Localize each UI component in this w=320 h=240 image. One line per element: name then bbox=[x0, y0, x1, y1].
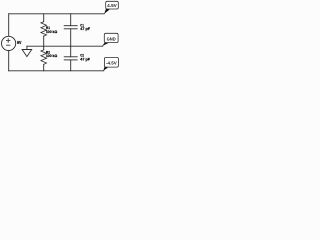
svg-text:GND: GND bbox=[107, 36, 116, 41]
svg-text:9V: 9V bbox=[17, 40, 22, 45]
svg-text:47 pF: 47 pF bbox=[80, 56, 90, 61]
svg-text:100 kΩ: 100 kΩ bbox=[46, 53, 58, 58]
svg-text:-4.5V: -4.5V bbox=[106, 60, 117, 65]
svg-text:4.5V: 4.5V bbox=[107, 3, 117, 8]
svg-text:100 kΩ: 100 kΩ bbox=[46, 29, 58, 34]
svg-text:47 pF: 47 pF bbox=[80, 26, 90, 31]
